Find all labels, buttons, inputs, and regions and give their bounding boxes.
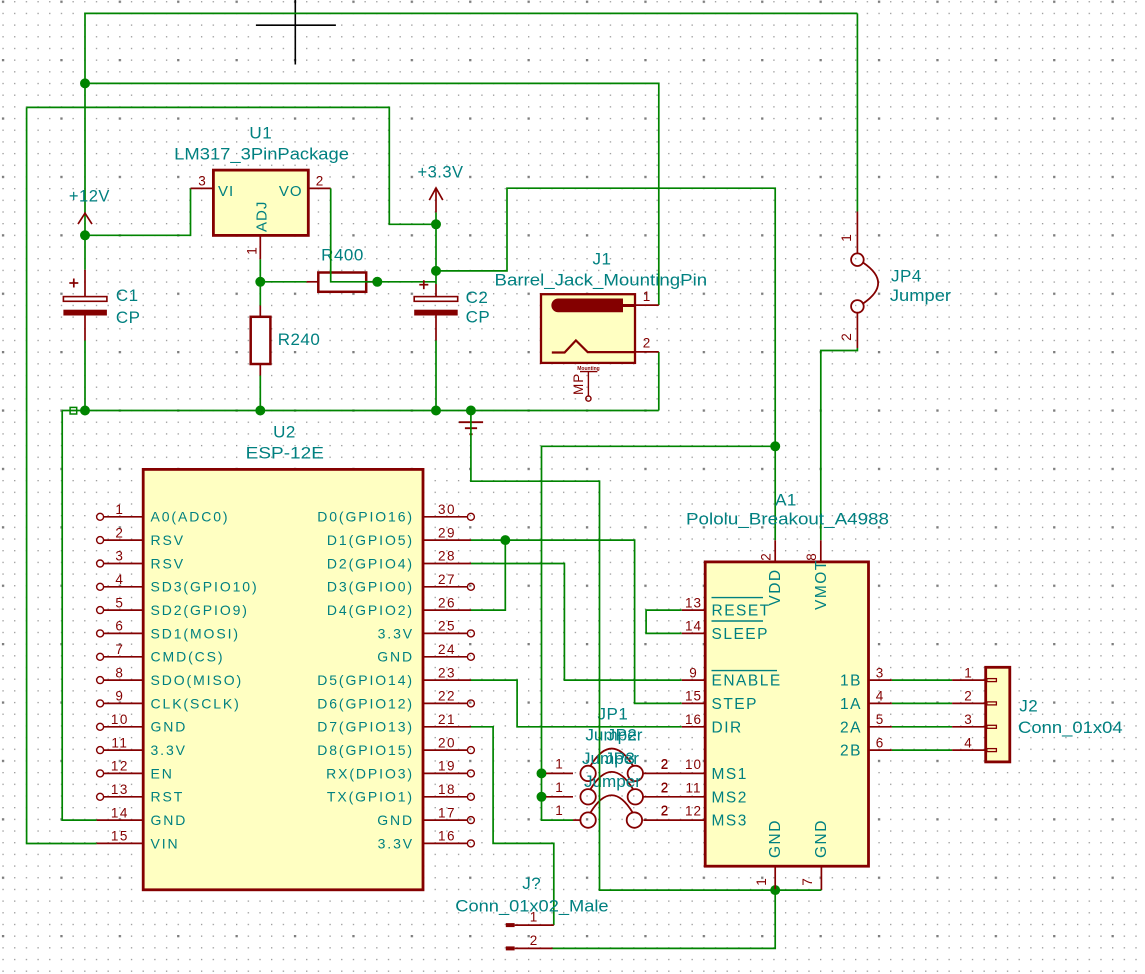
svg-text:1: 1: [555, 803, 564, 818]
junction D1 net: [500, 535, 510, 545]
svg-text:10: 10: [111, 712, 129, 727]
svg-text:10: 10: [685, 757, 702, 772]
svg-text:D7(GPIO13): D7(GPIO13): [317, 719, 414, 735]
svg-text:RESET: RESET: [712, 603, 771, 620]
svg-text:1: 1: [754, 878, 769, 886]
svg-text:J2: J2: [1019, 697, 1038, 716]
jumper JP3: [555, 749, 669, 828]
connector J? Conn_01x02_Male: [455, 874, 608, 950]
svg-text:6: 6: [115, 619, 124, 634]
svg-text:3.3V: 3.3V: [378, 625, 414, 641]
svg-text:J1: J1: [593, 250, 612, 269]
svg-text:2: 2: [964, 689, 973, 704]
svg-text:D4(GPIO2): D4(GPIO2): [327, 602, 414, 618]
svg-text:1: 1: [839, 234, 854, 242]
svg-text:A0(ADC0): A0(ADC0): [151, 509, 230, 525]
svg-text:MS1: MS1: [712, 766, 748, 783]
junction JP1 pin1: [537, 768, 547, 778]
junction +3.3V branch: [431, 266, 441, 276]
A1 pin 8 VMOT: [804, 540, 830, 610]
svg-text:25: 25: [438, 619, 456, 634]
svg-text:1: 1: [115, 502, 124, 517]
svg-text:7: 7: [115, 642, 124, 657]
A1 pins 10 11 12 MS1 MS2 MS3: [643, 757, 747, 830]
A1 pin 7 GND: [800, 819, 830, 890]
svg-text:2: 2: [316, 173, 324, 188]
svg-text:VI: VI: [218, 183, 234, 200]
junction C2 GND: [431, 406, 441, 416]
svg-text:TX(GPIO1): TX(GPIO1): [327, 789, 414, 805]
origin crosshair marker: [256, 0, 336, 65]
wire C2 bottom to GND row: [435, 341, 437, 411]
svg-text:11: 11: [685, 780, 701, 795]
svg-text:CLK(SCLK): CLK(SCLK): [151, 695, 241, 711]
svg-text:1: 1: [245, 247, 260, 255]
svg-text:13: 13: [685, 595, 702, 610]
svg-text:D6(GPIO12): D6(GPIO12): [317, 695, 414, 711]
wire GND symbol to A1 GND route: [471, 411, 822, 891]
svg-text:1B: 1B: [840, 673, 862, 690]
wire D5 GPIO14 net to DIR: [471, 680, 682, 727]
svg-text:Jumper: Jumper: [584, 772, 641, 791]
svg-text:2B: 2B: [840, 743, 862, 760]
junction +3.3V node: [431, 219, 441, 229]
U1 pin 2 VO: [308, 173, 330, 188]
svg-text:2: 2: [661, 756, 670, 771]
A1 pin 15 STEP: [682, 689, 758, 713]
svg-text:1: 1: [555, 756, 564, 771]
svg-text:VO: VO: [279, 183, 303, 200]
junction R400 right: [372, 277, 382, 287]
wire ADJ node R400 left: [260, 259, 306, 305]
svg-text:3: 3: [198, 173, 206, 188]
svg-text:19: 19: [438, 759, 456, 774]
svg-text:11: 11: [111, 735, 128, 750]
jumper JP1: [546, 704, 669, 781]
svg-text:D8(GPIO15): D8(GPIO15): [317, 742, 414, 758]
svg-text:15: 15: [111, 829, 129, 844]
svg-text:13: 13: [111, 782, 129, 797]
jumper JP4: [839, 212, 951, 349]
svg-text:3: 3: [964, 712, 973, 727]
resistor R240: [251, 306, 321, 376]
svg-text:2A: 2A: [840, 719, 862, 736]
svg-text:14: 14: [685, 619, 702, 634]
svg-text:STEP: STEP: [712, 696, 758, 713]
wire VIN rail top: [27, 107, 436, 224]
junction A1 GND node: [770, 885, 780, 895]
svg-text:2: 2: [643, 336, 651, 351]
IC U2 ESP-12E: [143, 423, 423, 890]
junction GND symbol node: [466, 406, 476, 416]
jumper JP2: [546, 726, 669, 805]
svg-text:MS2: MS2: [712, 789, 748, 806]
svg-text:5: 5: [115, 595, 124, 610]
svg-text:SLEEP: SLEEP: [712, 626, 769, 643]
svg-text:A1: A1: [775, 491, 797, 510]
wire A1 outputs to J2: [892, 680, 952, 750]
A1 right pins 3 4 5 6 outputs 1B 1A 2A 2B: [840, 665, 892, 759]
ground symbol GND: [459, 422, 483, 434]
svg-text:D2(GPIO4): D2(GPIO4): [327, 555, 414, 571]
wire +3.3V column: [435, 212, 437, 284]
wire +3.3V to VDD route: [436, 188, 775, 540]
svg-text:6: 6: [876, 735, 885, 750]
svg-text:GND: GND: [377, 812, 414, 828]
svg-text:2: 2: [661, 803, 670, 818]
svg-text:26: 26: [438, 595, 456, 610]
svg-text:15: 15: [685, 689, 702, 704]
junction ADJ R240 R400: [255, 277, 265, 287]
wire D7 GPIO13 net to J? pin1: [471, 727, 554, 925]
svg-text:2: 2: [839, 333, 854, 341]
junction VDD node: [770, 441, 780, 451]
svg-text:9: 9: [689, 665, 698, 680]
wire D1 GPIO5 net to STEP: [471, 540, 682, 703]
svg-text:17: 17: [438, 805, 456, 820]
svg-text:24: 24: [438, 642, 456, 657]
J1 pin 1: [635, 289, 659, 305]
svg-text:1A: 1A: [840, 696, 862, 713]
svg-text:3.3V: 3.3V: [378, 835, 414, 851]
wire RESET SLEEP tie: [646, 610, 682, 633]
A1 pin 2 VDD: [759, 540, 785, 605]
svg-text:Conn_01x02_Male: Conn_01x02_Male: [455, 897, 608, 916]
svg-text:LM317_3PinPackage: LM317_3PinPackage: [174, 145, 349, 164]
svg-text:20: 20: [438, 735, 456, 750]
junction R240 GND: [255, 406, 265, 416]
wire R240 bottom to GND row: [259, 376, 261, 411]
svg-text:GND: GND: [377, 649, 414, 665]
U1 pin 3 VI: [191, 173, 214, 188]
wire JP4 pin2 to VMOT: [821, 348, 858, 540]
svg-text:C2: C2: [466, 288, 489, 307]
svg-text:18: 18: [438, 782, 456, 797]
wire +12V column to C1: [84, 83, 86, 269]
svg-text:Jumper: Jumper: [890, 286, 951, 305]
svg-text:Conn_01x04: Conn_01x04: [1018, 718, 1123, 737]
svg-text:D0(GPIO16): D0(GPIO16): [317, 509, 414, 525]
U2 left pins 1-15 with numbers and names: [97, 502, 259, 851]
svg-text:CMD(CS): CMD(CS): [151, 649, 225, 665]
connector J1 Barrel_Jack_MountingPin: [495, 250, 708, 363]
J1 pin MP mounting: [571, 366, 600, 401]
svg-text:MP: MP: [571, 373, 586, 395]
svg-text:4: 4: [876, 689, 885, 704]
svg-text:1: 1: [643, 289, 651, 304]
svg-text:1: 1: [555, 780, 564, 795]
svg-text:GND: GND: [813, 819, 830, 858]
svg-text:3: 3: [876, 665, 885, 680]
svg-text:J?: J?: [522, 874, 541, 893]
svg-text:5: 5: [876, 712, 885, 727]
unconnected wire end square: [70, 407, 77, 414]
svg-text:R240: R240: [278, 330, 321, 349]
svg-text:C1: C1: [116, 286, 139, 305]
U2 right pins 30-16 with numbers and names: [317, 502, 474, 851]
svg-text:29: 29: [438, 525, 456, 540]
wire D2 GPIO4 net to ENABLE: [471, 564, 682, 681]
svg-text:16: 16: [438, 829, 456, 844]
svg-text:1: 1: [964, 665, 973, 680]
svg-text:23: 23: [438, 665, 456, 680]
svg-text:VIN: VIN: [151, 835, 180, 851]
svg-text:GND: GND: [151, 812, 188, 828]
svg-text:Barrel_Jack_MountingPin: Barrel_Jack_MountingPin: [495, 271, 708, 290]
svg-text:MS3: MS3: [712, 813, 748, 830]
A1 pin 9 ENABLE: [682, 665, 782, 689]
svg-text:3: 3: [115, 549, 124, 564]
svg-text:28: 28: [438, 549, 456, 564]
A1 pin 14 SLEEP: [682, 619, 769, 643]
svg-text:4: 4: [964, 735, 973, 750]
svg-text:RSV: RSV: [151, 532, 186, 548]
svg-text:ESP-12E: ESP-12E: [246, 444, 324, 463]
svg-text:JP4: JP4: [891, 267, 922, 286]
wire R400 right to C2 top: [373, 281, 436, 283]
svg-text:RX(DPIO3): RX(DPIO3): [326, 765, 414, 781]
svg-text:+12V: +12V: [69, 188, 110, 206]
svg-text:EN: EN: [151, 765, 174, 781]
svg-text:ENABLE: ENABLE: [712, 673, 782, 690]
connector J2 Conn_01x04: [952, 665, 1123, 762]
svg-text:21: 21: [438, 712, 456, 727]
wire D1 net to D4 GPIO2: [471, 540, 505, 610]
J1 pin 2: [635, 336, 659, 352]
svg-text:CP: CP: [116, 308, 141, 327]
power symbol +3.3V: [417, 164, 463, 213]
svg-text:9: 9: [115, 689, 124, 704]
svg-text:SD3(GPIO10): SD3(GPIO10): [151, 579, 259, 595]
wire VIN left rail: [27, 107, 97, 843]
svg-text:SD1(MOSI): SD1(MOSI): [151, 625, 240, 641]
regulator U1 LM317_3PinPackage: [174, 124, 349, 236]
wire +12V top rail: [85, 13, 857, 83]
U1 pin 1 ADJ: [245, 235, 261, 259]
svg-text:12: 12: [685, 804, 702, 819]
svg-text:JP3: JP3: [605, 749, 636, 768]
svg-text:RSV: RSV: [151, 555, 186, 571]
wire J1 pin2 to GND row: [658, 352, 660, 411]
svg-text:12: 12: [111, 759, 129, 774]
svg-text:8: 8: [115, 665, 124, 680]
svg-text:2: 2: [759, 553, 774, 561]
junction +12V C1 node: [80, 230, 90, 240]
A1 pin 13 RESET: [682, 595, 771, 619]
svg-text:D3(GPIO0): D3(GPIO0): [327, 579, 414, 595]
svg-text:R400: R400: [321, 245, 364, 264]
svg-text:3.3V: 3.3V: [151, 742, 187, 758]
capacitor C1 CP: [63, 270, 140, 341]
svg-text:JP1: JP1: [598, 704, 629, 723]
svg-text:GND: GND: [767, 819, 784, 858]
wire VO drop through R400: [331, 188, 373, 281]
svg-text:14: 14: [111, 805, 129, 820]
wire JP4 top: [856, 13, 858, 211]
svg-text:7: 7: [800, 878, 815, 886]
svg-text:4: 4: [115, 572, 124, 587]
power symbol +12V: [69, 188, 110, 225]
svg-text:JP2: JP2: [607, 726, 638, 745]
A1 pin 1 GND: [754, 819, 784, 890]
svg-text:30: 30: [438, 502, 456, 517]
wire +12V to J1 pin1: [85, 83, 659, 305]
wire VI pin to +12V junction: [85, 188, 191, 235]
svg-text:+3.3V: +3.3V: [417, 164, 463, 182]
svg-text:DIR: DIR: [712, 719, 743, 736]
svg-text:D5(GPIO14): D5(GPIO14): [317, 672, 414, 688]
wire C1 bottom to GND row: [84, 341, 86, 411]
svg-text:GND: GND: [151, 719, 188, 735]
svg-text:Pololu_Breakout_A4988: Pololu_Breakout_A4988: [686, 510, 889, 529]
svg-text:U1: U1: [249, 124, 272, 143]
svg-text:VMOT: VMOT: [813, 559, 830, 610]
svg-text:16: 16: [685, 712, 702, 727]
svg-text:SDO(MISO): SDO(MISO): [151, 672, 244, 688]
junction C1 GND: [80, 406, 90, 416]
junction JP2 pin1: [537, 792, 547, 802]
svg-text:2: 2: [661, 780, 670, 795]
svg-text:RST: RST: [151, 789, 185, 805]
wire +3.3V to jumpers column: [542, 446, 776, 820]
svg-text:U2: U2: [273, 423, 296, 442]
resistor R400: [307, 245, 373, 292]
svg-text:ADJ: ADJ: [254, 201, 271, 232]
wire GND row corner to U2 GND pin14: [62, 411, 96, 821]
capacitor C2 CP: [414, 280, 490, 340]
wire GND row: [62, 410, 659, 412]
svg-text:VDD: VDD: [767, 568, 784, 605]
svg-text:22: 22: [438, 689, 456, 704]
svg-text:2: 2: [115, 525, 124, 540]
svg-text:2: 2: [530, 933, 539, 948]
wire A1 GND to J? pin2: [553, 890, 776, 948]
svg-text:D1(GPIO5): D1(GPIO5): [327, 532, 414, 548]
svg-text:27: 27: [438, 572, 456, 587]
A1 pin 16 DIR: [682, 712, 743, 736]
driver A1 Pololu_Breakout_A4988: [686, 491, 889, 867]
junction +12V rail: [80, 78, 90, 88]
svg-text:SD2(GPIO9): SD2(GPIO9): [151, 602, 249, 618]
svg-text:CP: CP: [466, 307, 491, 326]
